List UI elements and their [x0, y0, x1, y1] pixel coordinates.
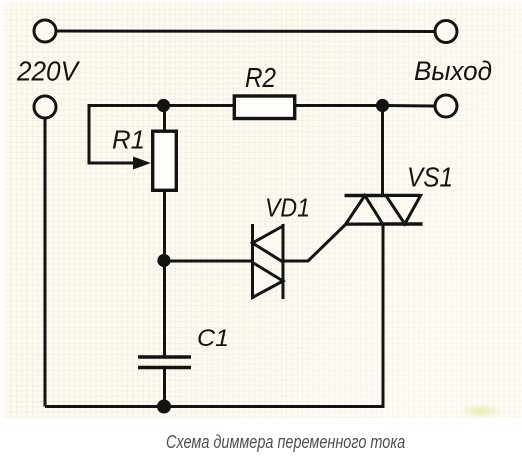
terminal bottom-right (Выход output) [435, 95, 457, 117]
svg-text:VD1: VD1 [265, 193, 310, 223]
wire diac to gate diagonal [283, 224, 346, 261]
wire R1 bottom to node C [163, 192, 166, 261]
diac VD1 lower triangle (points right) [253, 263, 284, 298]
wire bottom rail [45, 225, 383, 407]
caption [166, 433, 405, 451]
capacitor C1 bottom plate [138, 366, 191, 369]
terminal top-right (Выход output) [435, 21, 457, 43]
svg-text:R2: R2 [245, 62, 276, 93]
diac VD1 left bar [251, 224, 254, 299]
node D junction dot [157, 400, 171, 414]
triac VS1 bottom bar [346, 222, 423, 225]
svg-text:VS1: VS1 [407, 162, 453, 193]
capacitor C1 top plate [138, 355, 191, 358]
wire C1 to bottom rail [163, 369, 166, 407]
diac VD1 right bar [282, 224, 285, 299]
triac VS1 left triangle (points up) [346, 196, 383, 225]
wire middle row (node A to R2) [163, 104, 233, 107]
wire node C to diac [164, 260, 254, 263]
svg-text:C1: C1 [197, 325, 229, 352]
triac VS1 right triangle (points down) [386, 196, 421, 225]
terminal bottom-left (220V input) [34, 96, 56, 118]
wire node C down to C1 [163, 261, 166, 356]
resistor R1 (variable) [153, 131, 177, 190]
resistor R2 [234, 96, 294, 119]
svg-text:220V: 220V [16, 56, 80, 87]
wire node B down to triac [381, 106, 384, 197]
wire R1 wiper loop [89, 106, 163, 164]
terminal top-left (220V input) [34, 20, 56, 42]
arrowhead into R1 [133, 157, 151, 170]
wire top rail [57, 30, 434, 34]
node A junction dot [157, 99, 170, 112]
wire node A to R1 top [163, 106, 166, 132]
node C junction dot [157, 254, 170, 267]
svg-text:Выход: Выход [414, 56, 492, 86]
node B junction dot [376, 99, 389, 112]
wire node B to output terminal [382, 104, 434, 108]
wire R2 to node B [296, 104, 382, 107]
svg-text:R1: R1 [112, 125, 145, 155]
diac VD1 upper triangle (points left) [253, 226, 284, 262]
triac VS1 top bar [345, 194, 421, 197]
wire left rail down [44, 119, 47, 407]
